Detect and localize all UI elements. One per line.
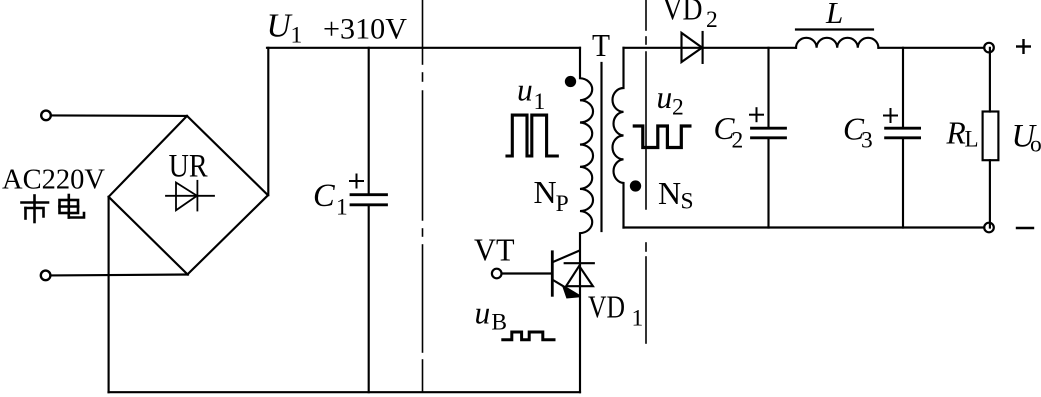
label 市电 (drawn) xyxy=(22,195,85,222)
transistor VT collector diagonal xyxy=(553,251,579,262)
wire: bridge - descender xyxy=(108,197,110,392)
transistor VT base terminal circle xyxy=(492,269,502,279)
transistor VT emitter diagonal with arrow xyxy=(553,280,579,296)
transformer T primary winding xyxy=(580,48,593,392)
capacitor C1 xyxy=(368,48,370,194)
wire: bottom AC input xyxy=(51,273,188,276)
output terminal + xyxy=(984,43,994,53)
svg-text:R: R xyxy=(946,116,966,151)
bridge rectifier UR diamond xyxy=(109,116,268,275)
svg-text:VT: VT xyxy=(474,231,515,267)
svg-text:C: C xyxy=(313,178,335,214)
svg-text:u: u xyxy=(475,296,491,331)
svg-text:P: P xyxy=(556,191,569,217)
svg-text:L: L xyxy=(825,0,843,30)
transformer secondary winding xyxy=(613,48,624,228)
wire: top rail secondary side xyxy=(624,47,797,49)
plus sign of C3 xyxy=(884,109,897,122)
svg-text:2: 2 xyxy=(706,7,718,33)
output terminal - xyxy=(984,223,994,233)
polarity dot secondary xyxy=(631,181,640,190)
chain line 1 (primary isolation boundary) xyxy=(422,0,424,392)
svg-text:1: 1 xyxy=(632,305,644,331)
svg-text:S: S xyxy=(681,189,694,215)
chain line 2 (secondary isolation boundary) xyxy=(645,0,647,343)
svg-text:U: U xyxy=(267,8,294,45)
svg-text:B: B xyxy=(491,309,507,335)
svg-text:1: 1 xyxy=(534,89,546,115)
plus sign of C2 xyxy=(750,108,763,121)
capacitor C3 xyxy=(902,48,904,128)
svg-text:L: L xyxy=(965,127,979,152)
transformer core xyxy=(600,63,602,231)
terminal: AC input bottom xyxy=(41,271,51,281)
svg-text:N: N xyxy=(534,174,557,210)
terminal: AC input top xyxy=(41,111,51,121)
diode VD1 (across C-E) xyxy=(565,262,594,264)
svg-text:1: 1 xyxy=(336,195,348,221)
svg-text:AC220V: AC220V xyxy=(2,165,105,196)
svg-text:2: 2 xyxy=(672,95,684,121)
waveform u2 xyxy=(634,126,690,148)
plus sign of C1 xyxy=(350,175,363,188)
resistor RL xyxy=(989,48,991,112)
transistor VT base bar xyxy=(551,252,554,295)
svg-text:T: T xyxy=(592,27,610,63)
svg-text:o: o xyxy=(1030,131,1041,157)
svg-text:N: N xyxy=(658,175,681,211)
wire: bridge + riser xyxy=(267,48,269,195)
waveform uB xyxy=(503,332,554,340)
wire: top AC input xyxy=(51,114,187,117)
inductor core line xyxy=(796,28,873,30)
wire: bottom rail secondary side xyxy=(624,226,985,228)
svg-text:+310V: +310V xyxy=(323,12,407,45)
svg-text:u: u xyxy=(517,72,533,107)
diode symbol inside UR xyxy=(166,181,214,211)
svg-text:UR: UR xyxy=(169,149,208,185)
svg-text:VD: VD xyxy=(588,289,625,325)
wire: top rail primary side xyxy=(267,47,580,49)
polarity dot primary xyxy=(566,77,575,86)
svg-text:u: u xyxy=(657,80,673,115)
label + of output xyxy=(1016,39,1031,54)
svg-text:2: 2 xyxy=(732,127,744,153)
svg-text:VD: VD xyxy=(663,0,703,27)
inductor L xyxy=(796,38,878,48)
wire: base xyxy=(502,272,552,274)
diode VD2 xyxy=(682,33,703,62)
capacitor C2 xyxy=(767,48,769,128)
svg-text:1: 1 xyxy=(291,22,303,48)
svg-text:3: 3 xyxy=(861,127,873,153)
minus sign of output xyxy=(1017,227,1033,229)
wire: bottom rail primary side xyxy=(109,391,581,393)
waveform u1 xyxy=(507,115,557,156)
